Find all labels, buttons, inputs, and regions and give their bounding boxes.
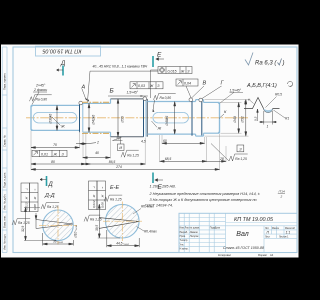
dim 2 (groove width) [76, 143, 96, 145]
svg-text:Д-Д: Д-Д [44, 193, 55, 199]
roughness Ra 1.25 E-E [104, 195, 122, 201]
svg-text:70: 70 [53, 143, 57, 147]
D-D keyway wedge [36, 220, 73, 229]
roughness Ra 1.25 below [121, 150, 139, 157]
relief groove after section 1 [80, 103, 83, 132]
svg-text:И: И [119, 146, 122, 150]
svg-text:Ж: Ж [33, 197, 37, 201]
svg-text:Ж: Ж [180, 69, 185, 73]
svg-text:А,Б,В,Г(4:1): А,Б,В,Г(4:1) [246, 83, 277, 89]
shaft section 4 (keyway journal) [147, 102, 195, 135]
svg-text:Ra 1,25: Ra 1,25 [235, 157, 247, 161]
svg-text:IT14: IT14 [279, 189, 285, 193]
E-E centerlines [103, 220, 142, 222]
title block small texts [180, 227, 296, 251]
svg-text:=: = [101, 187, 105, 189]
svg-text:2: 2 [96, 141, 99, 145]
svg-text:86,5: 86,5 [109, 160, 116, 164]
detail groove profile [244, 98, 280, 113]
svg-text:Сталь 45 ГОСТ 1050-88: Сталь 45 ГОСТ 1050-88 [223, 246, 264, 250]
svg-text:Разраб.: Разраб. [180, 232, 189, 234]
svg-text:68,5: 68,5 [165, 157, 172, 161]
svg-text:2 Неуказанные предельные откло: 2 Неуказанные предельные отклонения разм… [149, 192, 260, 196]
D-D keyway depth dim far left [24, 208, 56, 241]
svg-text:3 На торцах Ж и К допускаются: 3 На торцах Ж и К допускаются центровые … [150, 198, 257, 202]
svg-text:№ докум.: № докум. [190, 227, 200, 230]
heat treatment lines section 2 [82, 101, 110, 103]
datum flag I [118, 144, 125, 151]
tolerance frame runout right [176, 79, 198, 86]
shaft centerline [26, 117, 248, 119]
svg-text:∅48: ∅48 [233, 116, 237, 123]
tolerance frame radial runout mid [130, 82, 163, 89]
title block grid [179, 213, 297, 252]
E-E depth dim left [98, 204, 120, 238]
svg-text:Листов 1: Листов 1 [279, 236, 289, 238]
shaft section 1 (left journal) [31, 105, 80, 130]
top-left stamp box [36, 46, 101, 56]
section mark E lower [152, 173, 154, 184]
dim row 274 total [31, 168, 220, 170]
section mark E upper [152, 56, 154, 67]
svg-text:∅55: ∅55 [121, 116, 125, 123]
svg-text:Подп. и дата: Подп. и дата [2, 172, 6, 188]
leader to slot arc [153, 100, 155, 112]
svg-text:∅36k6: ∅36k6 [48, 114, 52, 124]
svg-text:∅10₊₀,₃₆: ∅10₊₀,₃₆ [74, 225, 78, 238]
svg-text:Утв.: Утв. [180, 244, 185, 246]
svg-text:Ж: Ж [101, 195, 105, 199]
svg-text:Дата: Дата [215, 228, 221, 230]
svg-text:Ra 1,25: Ra 1,25 [18, 221, 30, 225]
svg-text:4,5: 4,5 [141, 140, 146, 144]
svg-text:Иванов: Иванов [190, 232, 199, 234]
balloon B circle [143, 97, 147, 101]
svg-text:Ж: Ж [53, 152, 58, 156]
D-D width dim [43, 233, 74, 246]
vertical diameter dim 52 right [245, 100, 247, 137]
svg-text:0,012: 0,012 [25, 202, 29, 210]
svg-text:274: 274 [115, 165, 122, 169]
svg-text:Ж: Ж [149, 84, 154, 88]
svg-text:0,04: 0,04 [184, 81, 191, 85]
tolerance stack left of E-E [89, 181, 106, 210]
section mark D upper [62, 66, 64, 76]
section E-E circle [106, 204, 140, 238]
svg-text:39,5: 39,5 [95, 225, 99, 231]
dim row 70 [31, 147, 80, 149]
vertical diameter dim section 1 [56, 105, 58, 130]
datum flag Z right [237, 145, 244, 152]
detail dim 1 below [259, 111, 277, 125]
svg-text:32,9: 32,9 [21, 226, 25, 232]
roughness Ra 1.25 E-E low [84, 215, 100, 221]
svg-text:∅52: ∅52 [240, 116, 244, 123]
svg-text:Н.контр.: Н.контр. [180, 249, 189, 251]
svg-text:КП ТМ 19.00.05: КП ТМ 19.00.05 [234, 217, 274, 223]
dim row 60 right [162, 142, 205, 144]
svg-text:R0,5: R0,5 [275, 93, 282, 97]
dim row 80 [31, 163, 86, 165]
shaft section 6 (right end) [204, 102, 220, 133]
svg-text:Е: Е [157, 52, 162, 59]
svg-text:Масса: Масса [272, 228, 280, 230]
svg-text:Ra 1,25: Ra 1,25 [47, 205, 59, 209]
signatures imitations [190, 232, 199, 238]
svg-text:КП ТМ 19.00.05: КП ТМ 19.00.05 [42, 47, 82, 53]
svg-text:2 фаски: 2 фаски [33, 88, 47, 92]
keyway slot section 4 [153, 112, 189, 123]
svg-text:Справ. №: Справ. № [2, 135, 6, 147]
balloon A circle [79, 101, 83, 105]
svg-text:Инв. № подл.: Инв. № подл. [2, 234, 6, 250]
detail groove arc highlight [264, 109, 273, 113]
svg-text:Ra 1,25: Ra 1,25 [127, 153, 139, 157]
vertical diameter dim 48 right [238, 102, 240, 133]
svg-text:0,012: 0,012 [92, 200, 96, 208]
svg-text:0,5: 0,5 [254, 116, 258, 121]
groove B lines [143, 99, 145, 137]
svg-text:⊥: ⊥ [25, 188, 29, 191]
svg-text:28: 28 [219, 157, 224, 161]
below frame texts [218, 253, 274, 257]
svg-text:Ra 1,25: Ra 1,25 [110, 198, 122, 202]
roughness Ra 0.80 left [30, 95, 52, 101]
svg-text:Ra 6,3 (: Ra 6,3 ( [255, 61, 277, 67]
shaft section 3 (largest) [111, 99, 144, 137]
svg-text:40: 40 [95, 151, 99, 155]
svg-text:Т.контр.: Т.контр. [180, 240, 189, 242]
D-D centerlines [39, 224, 77, 226]
dim row 86.5 [86, 163, 145, 165]
svg-text:Д: Д [48, 182, 54, 188]
svg-text:ГОСТ 14034-74.: ГОСТ 14034-74. [145, 204, 173, 208]
svg-text:∅42k6: ∅42k6 [92, 115, 96, 125]
svg-text:А4: А4 [270, 253, 274, 257]
collar section 5 [196, 100, 204, 137]
svg-text:В: В [203, 81, 207, 87]
shelf under B and chamfer note [108, 95, 148, 97]
svg-text:R1: R1 [285, 117, 289, 121]
extension lines below shaft [31, 131, 226, 170]
svg-text:Ж: Ж [92, 195, 96, 199]
svg-text:Вал: Вал [236, 231, 248, 238]
svg-text:1 260...285 НВ.: 1 260...285 НВ. [150, 185, 176, 189]
balloon V circle [189, 98, 193, 102]
svg-text:=: = [33, 189, 37, 191]
svg-text:0,08: 0,08 [101, 202, 105, 208]
tolerance frame concentricity [158, 67, 192, 74]
groove V (dark) [191, 100, 193, 136]
svg-text:Ra 1,25: Ra 1,25 [90, 218, 102, 222]
svg-text:Взам. инв.: Взам. инв. [2, 215, 6, 228]
balloon G circle [199, 98, 203, 102]
E-E width dim [107, 230, 139, 247]
E-E keyway wedge [99, 218, 139, 229]
roughness Ra 0.80 mid [154, 93, 176, 99]
top-right roughness [245, 53, 285, 67]
svg-text:60: 60 [163, 139, 167, 143]
svg-text:0,08: 0,08 [33, 204, 37, 210]
svg-text:): ) [282, 61, 285, 67]
roughness Ra 1.25 right [229, 154, 248, 161]
sheet [1, 45, 299, 258]
svg-text:0,01: 0,01 [41, 152, 48, 156]
vertical diameter dim section 3 [117, 99, 119, 137]
dim row 68.5 [160, 160, 207, 162]
svg-text:1,5×45°: 1,5×45° [230, 89, 242, 93]
left margin rotated texts [2, 72, 6, 250]
svg-text:Формат: Формат [258, 253, 268, 257]
roughness Ra 1.25 D-D low [12, 219, 30, 225]
vertical diameter dim section 2 [88, 103, 90, 132]
dim row 40 [83, 157, 110, 159]
svg-text:Ж: Ж [60, 124, 65, 129]
svg-text:Пров.: Пров. [180, 236, 186, 238]
svg-text:Ж: Ж [157, 125, 162, 130]
detail 0.5 rotated dim [257, 109, 259, 121]
svg-text:Ra 0,80: Ra 0,80 [36, 97, 48, 101]
svg-text:⊥: ⊥ [92, 186, 96, 189]
svg-text:А: А [81, 85, 86, 91]
svg-text:Ra 0,80: Ra 0,80 [160, 96, 172, 100]
title block outer [179, 213, 297, 252]
svg-text:R0,4max: R0,4max [144, 230, 157, 234]
D-D depth dim left [35, 213, 37, 229]
svg-text:Е-Е: Е-Е [110, 185, 120, 191]
svg-text:Изм: Изм [180, 228, 185, 230]
left margin column [2, 47, 7, 253]
groove G (dark) [201, 100, 203, 135]
svg-text:Д: Д [60, 61, 66, 67]
roughness Ra 1.25 D-D [41, 203, 59, 209]
svg-text:0,03: 0,03 [138, 84, 145, 88]
section mark D lower [46, 176, 48, 186]
svg-text:Ж: Ж [25, 197, 29, 201]
svg-text:Б: Б [110, 88, 114, 95]
svg-text:1: 1 [267, 125, 269, 129]
svg-text:40...45 HRC h0,8...1,1 канавки: 40...45 HRC h0,8...1,1 канавки ТВЧ [93, 65, 148, 69]
keyway slot section 1 [33, 112, 77, 123]
leader to Ra 1.25 right [211, 144, 229, 162]
extension lines right end [205, 100, 249, 137]
tolerance stack left of D-D [21, 183, 38, 212]
IT14/2 fraction [279, 189, 285, 198]
runout tolerance frame lower left [32, 150, 67, 156]
svg-text:Перв. примен.: Перв. примен. [3, 72, 7, 90]
svg-text:Петров: Петров [190, 236, 199, 238]
svg-text:1:1: 1:1 [286, 230, 291, 234]
technical requirements [145, 185, 260, 208]
svg-text:∅48k6: ∅48k6 [165, 116, 169, 126]
svg-text:80: 80 [51, 160, 55, 164]
rotated dia dim inside journal 4 [174, 102, 176, 135]
svg-text:Копировал: Копировал [218, 253, 231, 257]
shaft section 2 [83, 99, 111, 137]
svg-text:Инв. № дубл.: Инв. № дубл. [2, 194, 6, 210]
shoulder at end of section 3 [146, 99, 148, 137]
rotation symbol [288, 81, 293, 86]
section D-D circle [43, 210, 74, 241]
svg-text:1,5×45°: 1,5×45° [127, 91, 139, 95]
dim row 28 [207, 160, 226, 162]
svg-text:0,015: 0,015 [168, 69, 177, 73]
svg-text:2×45°: 2×45° [35, 84, 46, 88]
svg-text:2: 2 [280, 194, 283, 198]
svg-text:44,5₊₀,₆₂: 44,5₊₀,₆₂ [116, 241, 129, 245]
